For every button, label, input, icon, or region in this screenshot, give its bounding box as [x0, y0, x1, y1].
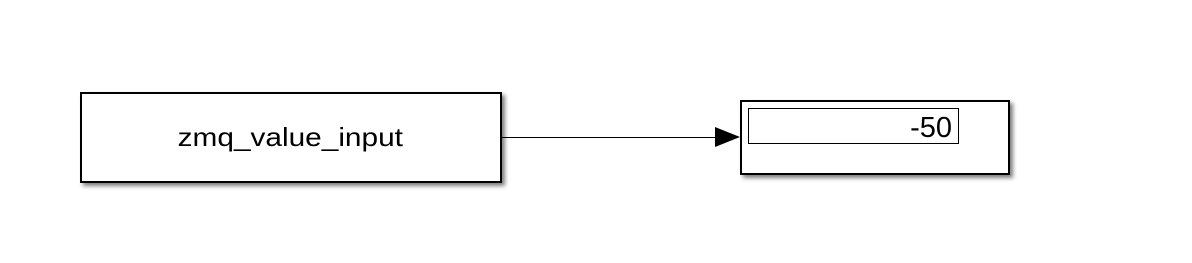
display value box showing -50	[748, 108, 959, 144]
display block (outer frame)	[740, 100, 1011, 175]
wire (signal line from zmq_value_input to Display)	[501, 137, 717, 139]
block zmq_value_input (source subsystem)	[80, 92, 502, 183]
arrowhead (signal into Display input port)	[715, 127, 740, 147]
